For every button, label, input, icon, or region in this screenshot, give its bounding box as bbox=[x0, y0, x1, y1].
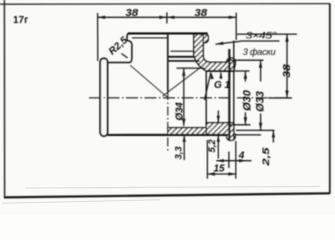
svg-text:38: 38 bbox=[282, 64, 293, 78]
svg-text:38: 38 bbox=[125, 8, 138, 19]
svg-text:4: 4 bbox=[238, 150, 245, 161]
svg-text:5,2: 5,2 bbox=[207, 139, 218, 153]
svg-text:G 1: G 1 bbox=[214, 80, 231, 91]
svg-text:3×45°: 3×45° bbox=[246, 31, 278, 42]
svg-text:Ø34: Ø34 bbox=[175, 102, 186, 121]
svg-text:15: 15 bbox=[214, 163, 226, 174]
svg-text:Ø33: Ø33 bbox=[254, 91, 266, 112]
svg-text:2,5: 2,5 bbox=[261, 147, 272, 167]
svg-text:3 фаски: 3 фаски bbox=[243, 47, 276, 58]
svg-text:Ø30: Ø30 bbox=[241, 89, 253, 111]
svg-text:38: 38 bbox=[194, 8, 207, 19]
svg-text:17г: 17г bbox=[13, 15, 28, 26]
svg-text:3,3: 3,3 bbox=[173, 146, 184, 160]
